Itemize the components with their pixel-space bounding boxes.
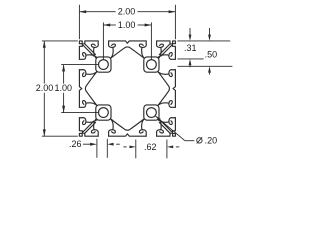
svg-text:.26: .26 (69, 139, 82, 149)
dimension 1.00 bore spacing (left) (55, 65, 99, 113)
dimension .31 slot depth (right) (177, 28, 230, 67)
bore hole bottom-right (dia .20) (147, 108, 157, 118)
dimension 2.00 overall height (left) (36, 41, 78, 136)
svg-text:.62: .62 (144, 142, 157, 152)
svg-text:.20: .20 (205, 136, 218, 146)
dimension .50 bore depth (right) (177, 28, 232, 75)
diameter symbol (197, 138, 202, 143)
corner relief diagonals (83, 44, 171, 133)
dimension .26 slot opening (bottom left) (69, 139, 120, 158)
bore hole top-left (dia .20) (99, 60, 109, 70)
bore node bottom-left (96, 105, 111, 120)
svg-text:1.00: 1.00 (118, 20, 136, 30)
svg-text:2.00: 2.00 (36, 83, 54, 93)
svg-text:2.00: 2.00 (118, 6, 136, 16)
svg-text:.31: .31 (184, 43, 197, 53)
T-slot lips, curl pockets and channel walls (8 slots) (79, 41, 175, 136)
dimension .62 slot width (bottom right) (123, 140, 179, 159)
bore node bottom-right (144, 105, 159, 120)
dimension 1.00 bore spacing (top) (103, 20, 151, 60)
svg-text:.50: .50 (205, 49, 218, 59)
leader and label for bore diameter .20 (155, 116, 217, 146)
inner wall chevrons at face centers (85, 47, 169, 130)
bore hole top-right (dia .20) (147, 60, 157, 70)
svg-text:1.00: 1.00 (55, 83, 73, 93)
bore hole bottom-left (dia .20) (99, 108, 109, 118)
dimension 2.00 overall width (top) (79, 5, 175, 39)
bore node top-right (144, 57, 159, 72)
extrusion outer profile: square with T-slot openings, corner slits, center V-notches (79, 41, 175, 136)
bore node top-left (96, 57, 111, 72)
